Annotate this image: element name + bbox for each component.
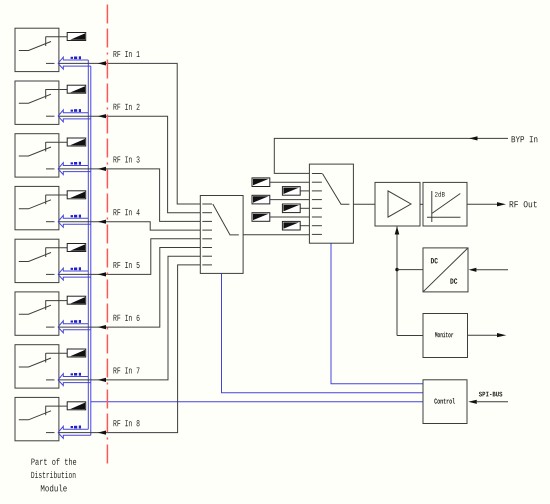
svg-text:RF In 6: RF In 6: [113, 313, 140, 324]
svg-text:RF In 3: RF In 3: [113, 155, 140, 166]
svg-text:RF In 8: RF In 8: [113, 418, 140, 429]
svg-text:RF In 1: RF In 1: [113, 49, 140, 60]
svg-text:Control: Control: [434, 399, 455, 407]
svg-text:2dB: 2dB: [434, 192, 445, 200]
svg-text:SPI-BUS: SPI-BUS: [479, 391, 503, 399]
svg-text:Part of the: Part of the: [31, 457, 77, 468]
svg-text:BYP In: BYP In: [511, 134, 538, 145]
svg-text:Module: Module: [40, 483, 67, 494]
svg-text:Distribution: Distribution: [31, 470, 76, 481]
svg-text:RF In 7: RF In 7: [113, 366, 140, 377]
svg-text:DC: DC: [450, 278, 458, 287]
svg-text:RF Out: RF Out: [509, 199, 538, 210]
svg-text:RF In 4: RF In 4: [113, 207, 140, 218]
svg-text:DC: DC: [430, 257, 438, 266]
svg-text:RF In 2: RF In 2: [113, 102, 140, 113]
svg-text:RF In 5: RF In 5: [113, 260, 140, 271]
svg-text:Monitor: Monitor: [435, 332, 454, 340]
